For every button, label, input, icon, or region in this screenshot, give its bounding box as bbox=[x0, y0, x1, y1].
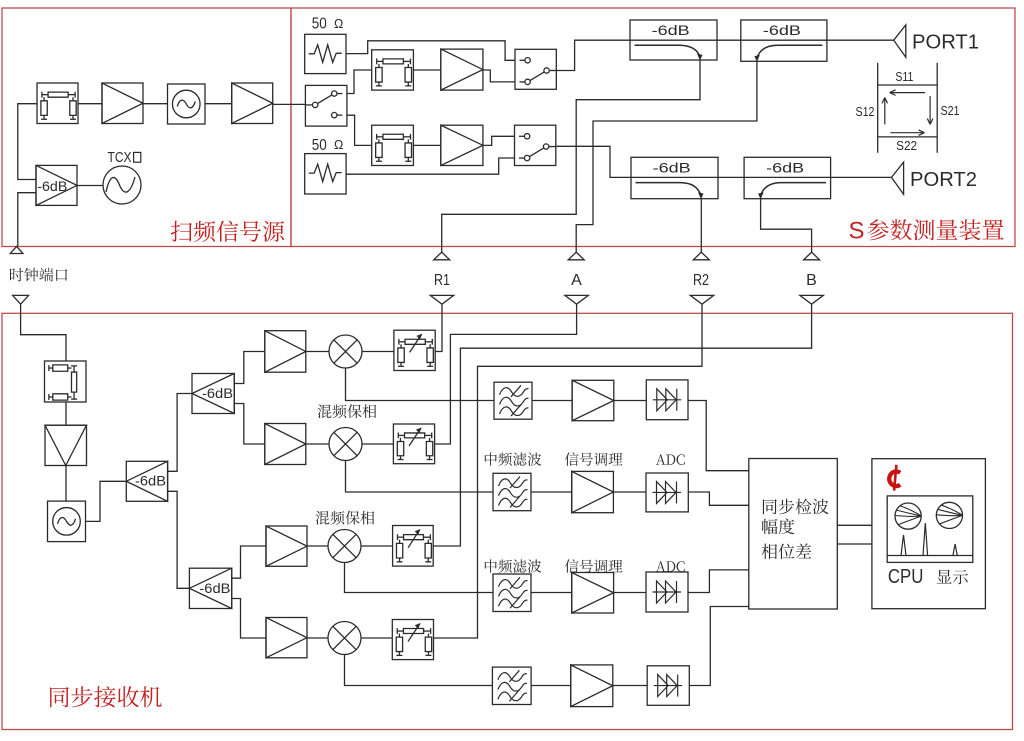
svg-text:PORT2: PORT2 bbox=[910, 168, 977, 191]
wire bbox=[531, 592, 572, 594]
wire: mixer A IF output bbox=[346, 461, 494, 493]
sync detector block 同步检波 bbox=[749, 459, 838, 610]
wire bbox=[413, 69, 440, 71]
wire bbox=[77, 185, 103, 187]
wire: terminal B to VA3 bbox=[433, 304, 811, 546]
wire bbox=[837, 543, 872, 545]
smith chart fan curves (right) bbox=[936, 505, 962, 524]
wire: CP1 coupled port to terminal R1 bbox=[442, 60, 700, 252]
wire bbox=[86, 481, 127, 521]
conditioning amplifier (channel A) bbox=[572, 471, 614, 512]
flow graph arrow S21 (right, pointing down) bbox=[929, 96, 931, 124]
svg-text:R2: R2 bbox=[693, 272, 709, 289]
svg-text:R1: R1 bbox=[434, 272, 450, 289]
wire: ADC R1 to sync detector bbox=[688, 401, 749, 471]
wire bbox=[273, 103, 306, 105]
wire bbox=[361, 545, 393, 547]
ADC converter (channel B) bbox=[646, 572, 688, 612]
terminal clock (receiver input) bbox=[13, 295, 29, 304]
label 信号调理 (signal conditioning) row2 bbox=[565, 452, 623, 466]
directional coupler -6dB CP4 bbox=[744, 157, 831, 198]
wire bbox=[234, 352, 264, 384]
attenuator pad PA1 (port1 chain) bbox=[372, 50, 414, 90]
terminal R1 (receiver input) bbox=[430, 295, 453, 304]
terminal R1 (top) bbox=[434, 252, 450, 260]
wire: ADC R2 to sync detector bbox=[689, 607, 749, 686]
amplifier in source chain bbox=[102, 83, 143, 124]
amplifier A2 (port1 chain) bbox=[441, 49, 483, 90]
frame: sweep signal source block 扫频信号源 bbox=[2, 8, 291, 247]
wire bbox=[232, 546, 266, 578]
wire bbox=[531, 685, 571, 687]
connector PORT2 bbox=[892, 162, 904, 194]
wire bbox=[614, 592, 646, 594]
label 中频滤波 (IF filtering) row2 bbox=[485, 453, 542, 467]
switch S0 (source transfer) bbox=[305, 85, 347, 126]
wire bbox=[306, 351, 329, 353]
power divider -6dB D3 bbox=[189, 568, 231, 608]
svg-text:-6dB: -6dB bbox=[202, 386, 233, 402]
smith chart circle (left) bbox=[895, 503, 921, 529]
directional coupler -6dB CP2 bbox=[741, 20, 827, 61]
label 显示 (display) bbox=[937, 570, 968, 585]
attenuator pad PA2 (port2 chain) bbox=[372, 125, 414, 165]
label 时钟端口 (clock port) bbox=[10, 268, 67, 282]
wire: S1 common to PORT1 through line bbox=[556, 40, 893, 70]
wire bbox=[306, 443, 329, 445]
wire bbox=[205, 103, 232, 105]
wire bbox=[306, 637, 328, 639]
svg-text:50: 50 bbox=[312, 137, 327, 154]
LO amplifier (channel B) bbox=[266, 526, 307, 566]
svg-text:CPU: CPU bbox=[888, 566, 924, 588]
IF band-pass filter (channel B) bbox=[493, 574, 531, 612]
display screen frame bbox=[887, 496, 973, 563]
label ADC row2 bbox=[656, 454, 685, 465]
wire bbox=[347, 115, 372, 145]
sweep oscillator bbox=[168, 84, 206, 124]
IF band-pass filter (channel R2) bbox=[492, 667, 531, 704]
frame: S-parameter measuring unit block bbox=[291, 8, 1015, 247]
wire bbox=[18, 193, 36, 247]
svg-text:PORT1: PORT1 bbox=[912, 31, 979, 54]
wire: terminal A to VA2 bbox=[435, 304, 577, 444]
label 扫频信号源 (sweep signal source) bbox=[171, 221, 284, 243]
svg-text:50: 50 bbox=[312, 16, 327, 33]
svg-text:-6dB: -6dB bbox=[653, 161, 691, 177]
wire: terminal R2 to VA4 bbox=[434, 304, 703, 638]
wire bbox=[362, 443, 393, 445]
wire: CP3 coupled port to terminal R2 bbox=[700, 199, 702, 252]
ADC converter (channel R2) bbox=[647, 666, 689, 706]
wire bbox=[346, 158, 514, 174]
wire bbox=[413, 144, 440, 146]
power divider -6dB D2 bbox=[192, 374, 234, 414]
S-parameter flow graph frame bbox=[877, 63, 879, 153]
trace baseline bbox=[887, 555, 973, 557]
label 同步接收机 (synchronous receiver) bbox=[50, 686, 162, 707]
ADC converter (channel R1) bbox=[646, 380, 688, 420]
label 混频保相 (mixing phase-hold) upper bbox=[318, 404, 377, 418]
mixer (channel B) bbox=[328, 530, 361, 563]
wire bbox=[168, 491, 190, 588]
svg-text:Ω: Ω bbox=[334, 17, 343, 31]
wire bbox=[232, 599, 266, 639]
terminal B (receiver input) bbox=[800, 295, 823, 304]
wire bbox=[78, 103, 102, 105]
wire bbox=[234, 404, 264, 445]
wire: CP2 coupled port to terminal A bbox=[576, 61, 757, 252]
wire: mixer R1 IF output bbox=[346, 368, 495, 401]
CPU display block bbox=[872, 459, 986, 609]
wire bbox=[613, 491, 646, 493]
svg-text:TCX: TCX bbox=[108, 149, 132, 166]
wire bbox=[346, 41, 515, 61]
wire: S2 common to PORT2 through line bbox=[556, 146, 892, 177]
reference oscillator TCXO bbox=[103, 166, 141, 204]
local oscillator (receiver) bbox=[48, 501, 86, 541]
label 信号调理 (signal conditioning) row3 bbox=[565, 559, 623, 573]
clock output terminal on source block bbox=[10, 246, 23, 253]
power divider -6dB D1 bbox=[126, 461, 167, 501]
amplifier A3 (port2 chain) bbox=[441, 125, 483, 165]
wire bbox=[347, 70, 372, 94]
flow graph arrow S22 (bottom, pointing right) bbox=[890, 132, 924, 134]
trace spike 1 bbox=[901, 535, 906, 556]
svg-text:S11: S11 bbox=[895, 69, 913, 84]
label 幅度 (amplitude) bbox=[762, 518, 794, 534]
wire bbox=[531, 491, 572, 493]
svg-text:A: A bbox=[571, 272, 582, 289]
directional coupler -6dB CP1 bbox=[630, 20, 717, 60]
connector PORT1 bbox=[894, 25, 906, 57]
attenuator pad (pi network) in source chain bbox=[37, 83, 78, 124]
attenuator pad (clock path, vertical) bbox=[45, 361, 87, 402]
wire: ADC B to sync detector bbox=[688, 570, 749, 593]
terminal A (top) bbox=[568, 252, 584, 260]
variable attenuator VA4 (channel R2) bbox=[392, 620, 433, 660]
wire bbox=[65, 466, 67, 502]
svg-text:S12: S12 bbox=[856, 104, 875, 119]
smith chart fan curves (left) bbox=[895, 506, 921, 525]
switch S1 (port1) bbox=[515, 49, 556, 89]
label 中频滤波 (IF filtering) row3 bbox=[485, 559, 542, 573]
wire: CP4 coupled port to terminal B bbox=[761, 199, 812, 252]
trace spike 3 (small) bbox=[953, 544, 957, 556]
label 相位差 (phase difference) bbox=[762, 543, 812, 559]
label 同步检波 (sync detection) bbox=[763, 499, 829, 515]
variable attenuator VA1 (channel R1) bbox=[394, 330, 435, 370]
termination resistor 50 ohm (lower) bbox=[305, 154, 346, 194]
directional coupler -6dB CP3 bbox=[631, 157, 718, 198]
svg-text:S: S bbox=[849, 218, 865, 245]
wire bbox=[168, 394, 192, 472]
wire: terminal R1 to VA1 bbox=[435, 304, 442, 351]
wire: clock into receiver bbox=[21, 304, 66, 361]
terminal R2 (receiver input) bbox=[690, 295, 713, 304]
IF band-pass filter (channel A) bbox=[493, 473, 531, 510]
frame: synchronous receiver block 同步接收机 bbox=[2, 313, 1013, 729]
variable attenuator VA2 (channel A) bbox=[393, 424, 434, 464]
wire bbox=[362, 351, 394, 353]
conditioning amplifier (channel R1) bbox=[572, 380, 614, 420]
mixer (channel R2) bbox=[328, 622, 361, 655]
conditioning amplifier (channel B) bbox=[572, 573, 614, 614]
LO amplifier (channel R2) bbox=[266, 618, 307, 658]
svg-text:-6dB: -6dB bbox=[766, 161, 804, 177]
terminal B (top) bbox=[804, 252, 820, 260]
terminal R2 (top) bbox=[693, 252, 709, 260]
wire bbox=[143, 103, 168, 105]
svg-text:Ω: Ω bbox=[334, 138, 343, 152]
wire bbox=[483, 136, 515, 145]
wire bbox=[306, 545, 328, 547]
wire bbox=[65, 402, 67, 425]
label ADC row3 bbox=[656, 561, 685, 572]
svg-text:-6dB: -6dB bbox=[199, 581, 230, 597]
svg-text:B: B bbox=[806, 272, 817, 289]
wire bbox=[18, 104, 37, 180]
mixer (channel A) bbox=[329, 428, 362, 461]
wire bbox=[483, 70, 515, 82]
termination resistor 50 ohm (upper) bbox=[305, 34, 346, 73]
svg-text:-6dB: -6dB bbox=[37, 179, 67, 195]
label 混频保相 (mixing phase-hold) lower bbox=[316, 511, 375, 525]
flow graph arrow S12 (left, pointing up) bbox=[884, 98, 886, 125]
flow graph arrow S11 (top, pointing left) bbox=[890, 92, 925, 94]
LO amplifier (channel R1) bbox=[265, 331, 306, 373]
svg-text:S21: S21 bbox=[941, 103, 960, 118]
wire bbox=[361, 637, 392, 639]
wire: mixer B IF output bbox=[345, 563, 494, 593]
wire: ADC A to sync detector bbox=[688, 492, 749, 505]
wire bbox=[837, 524, 872, 526]
trace spike 2 (tall) bbox=[923, 523, 928, 556]
terminal A (receiver input) bbox=[565, 295, 588, 304]
smith chart circle (right) bbox=[936, 502, 962, 528]
variable attenuator VA3 (channel B) bbox=[393, 526, 434, 567]
mixer (channel R1) bbox=[329, 335, 362, 368]
svg-text:-6dB: -6dB bbox=[652, 23, 690, 39]
wire bbox=[613, 685, 647, 687]
svg-text:-6dB: -6dB bbox=[135, 473, 166, 489]
ADC converter (channel A) bbox=[646, 473, 688, 512]
svg-text:-6dB: -6dB bbox=[763, 23, 801, 39]
svg-text:S22: S22 bbox=[896, 138, 917, 153]
logo glyph (red cent mark) bbox=[889, 471, 900, 486]
IF band-pass filter (channel R1) bbox=[494, 382, 532, 419]
LO amplifier (channel A) bbox=[265, 424, 306, 465]
wire: mixer R2 IF output bbox=[345, 655, 493, 686]
wire bbox=[614, 400, 647, 402]
wire bbox=[532, 400, 572, 402]
power divider -6dB D0 bbox=[36, 165, 77, 205]
switch S2 (port2) bbox=[515, 125, 556, 165]
amplifier (clock path, pointing down) bbox=[45, 425, 87, 465]
conditioning amplifier (channel R2) bbox=[571, 665, 613, 707]
output amplifier of source bbox=[232, 83, 273, 124]
